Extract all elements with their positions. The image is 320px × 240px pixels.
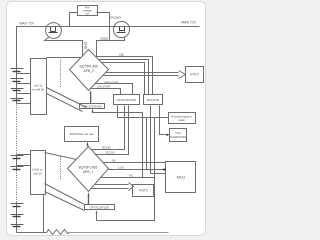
svg-text:0V: 0V [112, 159, 116, 163]
battery cells cell group 3..1 [11, 203, 24, 233]
resistor R1 [17, 230, 70, 235]
wire 0V [103, 162, 166, 164]
wire box1 diagonal bus pair [47, 88, 87, 108]
wire NTC arrow bottom [91, 183, 134, 191]
svg-text:4 NTC: 4 NTC [190, 73, 200, 77]
svg-text:MCU: MCU [177, 176, 186, 180]
svg-text:1.5V: 1.5V [118, 166, 124, 170]
wire isolator lead to CAN arrow [160, 106, 167, 135]
wire return line right [97, 118, 155, 221]
svg-text:DSG/CHG not use: DSG/CHG not use [70, 132, 94, 136]
svg-text:ISOLATOR: ISOLATOR [147, 99, 160, 102]
transistor Q1 CHG MOSFET [46, 23, 62, 39]
wire VC [101, 177, 155, 179]
battery cells cell group 10..9 [11, 155, 24, 172]
svg-text:BQ76PL455: BQ76PL455 [80, 65, 99, 69]
svg-text:DSG: DSG [101, 37, 109, 41]
wire pre-charge right PCHG [97, 13, 110, 41]
svg-text:APB_2: APB_2 [84, 69, 95, 73]
wire dotted bus continuation lower [16, 173, 18, 203]
monitor box cell 1 to cell 10 [31, 151, 46, 195]
block external signal to wake [169, 113, 196, 124]
svg-text:PCHG: PCHG [111, 16, 122, 20]
page frame [7, 2, 206, 236]
wire top rail MAX 72V [17, 27, 200, 69]
block 4 NTC bottom [133, 185, 154, 197]
svg-text:TRANSCEIVER: TRANSCEIVER [169, 136, 187, 139]
optocoupler lower-left of U2 [80, 104, 105, 109]
wire box2 top to U1 [45, 153, 77, 160]
wire cell taps to monitor box 2 [17, 155, 31, 166]
wire branch H2 down to 1.5V net [146, 118, 148, 170]
svg-text:GPIO/OFF: GPIO/OFF [104, 80, 119, 84]
svg-text:OPTOCOUPLER: OPTOCOUPLER [117, 99, 136, 102]
block 4 NTC top [186, 67, 204, 83]
wire box2 diagonal bus pair [45, 184, 85, 205]
monitor box cell 11 to cell 20 [31, 59, 47, 115]
svg-text:WAKE: WAKE [86, 195, 90, 203]
wire opto1 bottom arrow to H1 [92, 109, 94, 113]
svg-text:cell 10: cell 10 [33, 172, 42, 176]
wire opto1 to U2 arrow [90, 94, 92, 104]
wire dotted bus box2 [60, 157, 62, 181]
svg-text:MAX 72V: MAX 72V [182, 21, 197, 25]
svg-text:MAX 72V: MAX 72V [20, 22, 35, 26]
wire opto2 lead to wake box [118, 106, 169, 118]
wire GPIO/OFF [95, 84, 133, 95]
block MCU [166, 162, 196, 193]
wire 1.5V [109, 169, 166, 171]
wire DCHG [91, 106, 125, 150]
wire DSG gate [97, 37, 125, 57]
wire NC bus 3 [102, 63, 145, 95]
wire dotted bus continuation upper [16, 105, 18, 155]
wire CHG/OFF [91, 89, 121, 95]
optocoupler bottom box [85, 205, 115, 210]
wire cell taps to monitor box 1 [17, 74, 31, 104]
svg-text:WAKE: WAKE [89, 95, 93, 103]
battery cells cell group 20..11 [11, 69, 24, 104]
svg-text:CHG/OFF: CHG/OFF [97, 85, 111, 89]
svg-text:DCSO: DCSO [106, 151, 115, 155]
svg-text:CAN: CAN [175, 132, 180, 135]
block DSG/CHG not use [65, 127, 99, 142]
isolator box [144, 95, 163, 105]
svg-text:OPTOCOUPLER: OPTOCOUPLER [90, 206, 109, 209]
svg-text:wake: wake [179, 118, 186, 122]
wire isolator lead to MCU [151, 106, 166, 174]
wire box1 top to U2 [47, 57, 81, 59]
svg-text:External signal to: External signal to [171, 114, 192, 118]
wire NTC arrow top [103, 71, 186, 79]
wire NC bus 1 [97, 57, 153, 95]
transistor Q2 DSG MOSFET [113, 21, 129, 37]
op-amp U2 BQ76PL455 APB_2 diamond [70, 50, 109, 91]
svg-text:4 NTC: 4 NTC [139, 189, 149, 193]
wire CHG gate [45, 38, 83, 56]
pre-charge circuit box [78, 6, 98, 16]
svg-text:cct: cct [85, 12, 89, 16]
wire U1 bottom arrow from opto [88, 196, 90, 205]
svg-text:OPTOCOUPLER: OPTOCOUPLER [82, 106, 101, 109]
wire pre-charge left to rail [70, 13, 78, 27]
node junction dot [164, 169, 166, 171]
wire dotted bus box1 [60, 60, 62, 88]
svg-text:CHG: CHG [84, 42, 88, 50]
svg-text:BQ76PL455: BQ76PL455 [79, 165, 98, 169]
wire DCSO [95, 106, 129, 155]
wire U1 top arrow to DSG/CHG box [87, 145, 89, 147]
op-amp U1 BQ76PL455 APB_1 diamond [68, 147, 109, 192]
svg-text:to cell 20: to cell 20 [32, 88, 44, 92]
wire NC bus 2 [99, 60, 149, 95]
wire box2 bottom to rail [43, 195, 45, 233]
block CAN transceiver [170, 129, 187, 142]
svg-text:NC: NC [120, 53, 125, 57]
optocoupler mid box [114, 95, 140, 105]
svg-text:APB_1: APB_1 [83, 170, 94, 174]
wire bottom rail [70, 232, 169, 234]
svg-text:DCHG: DCHG [102, 146, 111, 150]
